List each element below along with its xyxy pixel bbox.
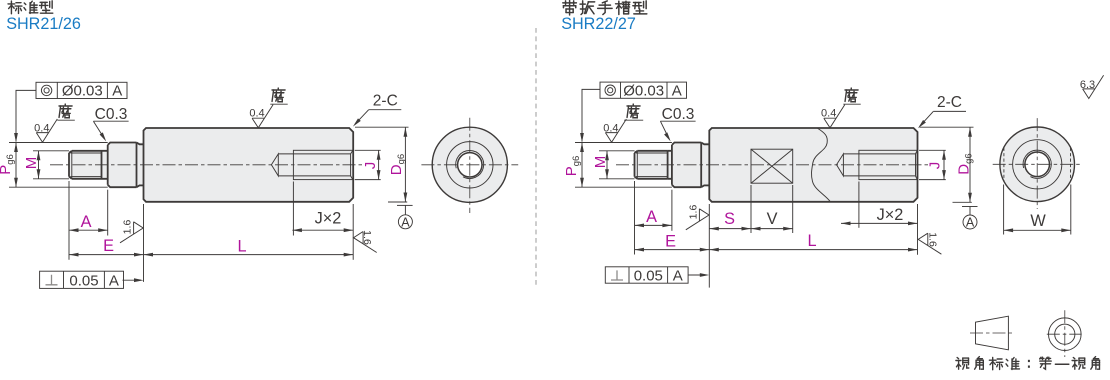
title: standard type (CJK) [8,1,22,14]
first angle projection symbol: circles [1049,318,1082,351]
svg-text:1.6: 1.6 [687,205,699,220]
svg-text:A: A [112,83,122,100]
leader frame to P right [582,89,600,141]
end view crosshairs [421,164,518,166]
D dimension [355,126,409,128]
Jx2 thread depth dimension [292,182,294,236]
title: wrench-slot type (CJK) [563,1,577,15]
svg-text:0.4: 0.4 [821,107,836,119]
roughness 6.3 general note [1083,75,1104,98]
svg-text:0.05: 0.05 [69,272,98,289]
svg-text:A: A [109,272,119,289]
hidden wrench flats dashed [1003,148,1005,182]
roughness 1.6 at L right extension [354,232,377,253]
svg-text:0.05: 0.05 [634,268,663,285]
svg-text:A: A [401,215,410,229]
centerline left shaft [50,164,365,166]
D dimension right [920,126,974,128]
roughness 0.4 + grind on body right [824,105,845,128]
svg-text:0.4: 0.4 [34,123,49,135]
GDT frame concentricity O 0.03 A [36,82,127,98]
first angle projection symbol: cone [976,316,1009,350]
svg-text:A: A [81,213,92,231]
wrench slot square with cross [751,149,793,183]
GDT frame right: concentricity [600,82,687,98]
svg-text:V: V [767,210,778,228]
svg-text:J×2: J×2 [315,209,342,227]
centerline right shaft [616,164,930,166]
svg-text:SHR21/26: SHR21/26 [6,15,81,33]
end view left: concentric circles [432,127,507,202]
L dimension [352,204,354,260]
E dimension [143,204,145,282]
svg-text:A: A [966,216,975,230]
end view right crosshairs [993,163,1082,165]
svg-text:6.3: 6.3 [1080,79,1095,91]
A dimension right [634,181,636,255]
threaded hole right drawing [837,154,844,176]
main body right drawing [709,128,917,202]
svg-text:0.4: 0.4 [603,123,618,135]
svg-text:1.6: 1.6 [121,220,133,235]
main body (D dia) with 2-C chamfer corners [144,128,354,202]
svg-text:A: A [646,208,657,226]
datum A right [962,206,978,208]
svg-text:Ø0.03: Ø0.03 [623,83,664,100]
svg-text:2-C: 2-C [373,92,398,109]
svg-text:Ø0.03: Ø0.03 [62,83,103,100]
shaft fill left drawing [69,151,108,179]
svg-text:C0.3: C0.3 [95,106,128,123]
J dimension right [919,149,946,151]
roughness 0.4 + grind on thread right [605,119,626,142]
collar (P dia section) [108,143,137,188]
J dimension [355,149,381,151]
P dimension [9,142,108,144]
collar right drawing [672,143,701,188]
roughness 1.6 at E extension [120,222,143,243]
svg-text:J: J [927,162,944,170]
V dimension [792,185,794,233]
P dimension right [575,142,672,144]
svg-text:L: L [807,232,816,250]
svg-text:W: W [1030,212,1046,230]
roughness 1.6 at L right extension right [918,233,941,254]
svg-text:C0.3: C0.3 [662,106,695,123]
shaft fill right drawing [635,151,674,179]
datum A symbol [397,204,413,206]
threaded stub M right drawing [637,151,667,179]
svg-text:E: E [103,237,114,255]
svg-text:S: S [724,210,735,228]
L dimension right [917,204,919,255]
svg-text:1.6: 1.6 [361,230,373,245]
roughness 1.6 at S extension right [686,209,709,230]
leader from frame to P dimension [16,90,36,141]
caption: view standard first angle (CJK) [956,358,969,370]
threaded stub M left end [72,151,102,179]
svg-text:0.4: 0.4 [249,107,264,119]
E dimension right [635,249,710,251]
svg-text:SHR22/27: SHR22/27 [561,15,636,33]
thread runout line [101,151,103,179]
end view right: circles with wrench flats [1000,127,1075,202]
roughness 0.4 + grind CJK on thread [36,119,57,142]
perpendicularity frame right [605,267,688,283]
S dimension [708,204,710,288]
W dimension [1003,185,1005,235]
svg-text:2-C: 2-C [937,94,962,111]
break wave line [811,128,830,202]
svg-text:M: M [23,157,40,170]
svg-text:A: A [673,268,683,285]
svg-text:M: M [592,156,609,169]
svg-text:L: L [237,237,246,255]
roughness 0.4 + grind CJK on body [252,105,273,128]
separator dashed line [535,28,537,286]
M dimension right [599,150,635,152]
svg-text:J×2: J×2 [877,206,904,224]
M dimension (thread) [33,150,69,152]
Jx2 dimension right [858,182,860,228]
svg-text:E: E [665,233,676,251]
svg-text:1.6: 1.6 [926,232,938,247]
svg-text:J: J [362,162,379,170]
svg-text:A: A [672,83,682,100]
threaded hole J (section view lines) [271,154,278,176]
perpendicularity frame 0.05 A [40,271,124,288]
A dimension [68,181,70,260]
